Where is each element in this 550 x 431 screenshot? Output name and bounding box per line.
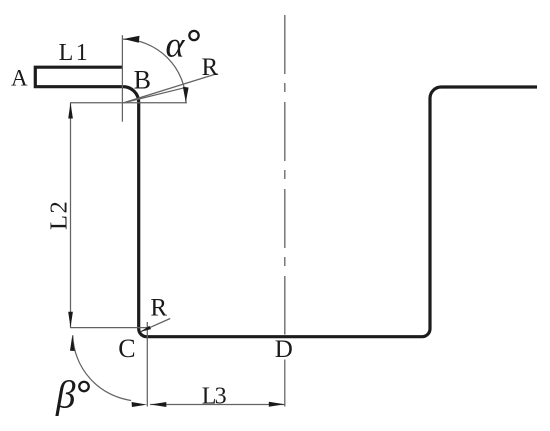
extension line vertical at B	[121, 35, 123, 122]
R leader arrow at C (pointing down-left)	[141, 326, 151, 332]
svg-text:L2: L2	[46, 200, 73, 230]
alpha arc arrow (top, pointing left)	[124, 36, 140, 43]
radial line to alpha-arrow base at B	[124, 87, 187, 103]
L3 left arrow (pointing left)	[151, 402, 167, 407]
svg-text:β: β	[55, 373, 76, 416]
radius leader R at C	[141, 319, 170, 332]
beta arc arrow (bottom, pointing right)	[132, 402, 147, 407]
dimension line L3	[150, 404, 285, 406]
svg-text:L: L	[59, 40, 74, 66]
L2 bottom arrow (pointing down)	[68, 312, 73, 328]
extension line vertical at C (L3 left)	[146, 322, 148, 407]
L3 right arrow (pointing right)	[269, 402, 285, 407]
extension line horizontal at C	[70, 327, 149, 329]
svg-text:1: 1	[76, 40, 88, 66]
svg-text:C: C	[118, 334, 135, 363]
svg-text:B: B	[134, 66, 151, 95]
extension line vertical below D	[284, 360, 286, 407]
centerline (dash-dot) through D	[284, 15, 286, 335]
svg-text:R: R	[150, 295, 167, 322]
svg-text:A: A	[11, 66, 28, 91]
svg-text:R: R	[202, 54, 219, 81]
beta arc arrow (top, pointing up)	[70, 335, 75, 351]
alpha angle arc	[122, 39, 186, 103]
profile outline (flange A-B, web B-C, bottom leg C-D, right leg)	[35, 67, 537, 337]
degree mark of alpha	[189, 31, 198, 40]
svg-text:α: α	[166, 25, 186, 65]
beta angle arc	[73, 335, 131, 400]
svg-text:3: 3	[215, 383, 227, 409]
extension line horizontal at B	[70, 102, 187, 104]
alpha arc arrow (bottom, pointing down)	[183, 87, 189, 103]
degree mark of beta	[79, 382, 89, 392]
dimension line L2	[70, 103, 72, 328]
svg-text:D: D	[275, 336, 293, 363]
L2 top arrow (pointing up)	[68, 103, 73, 119]
radius leader R at B	[124, 74, 218, 103]
